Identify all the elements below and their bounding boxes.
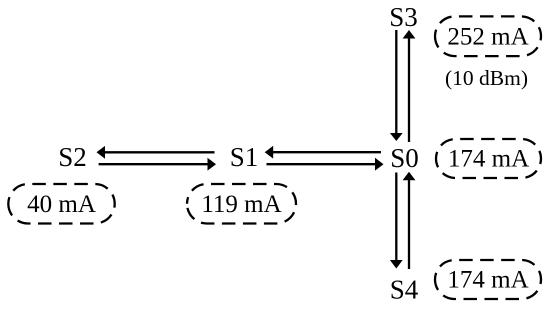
svg-text:S0: S0 xyxy=(390,143,419,173)
wire S3 to S0 (left, arrow pointing down at S0) xyxy=(390,30,403,141)
svg-text:252 mA: 252 mA xyxy=(447,23,528,50)
wire S4 to S0 (right, arrow pointing up at S0) xyxy=(403,172,416,269)
wire S0 to S1 (upper, arrow pointing left at S1) xyxy=(265,146,381,159)
svg-text:(10 dBm): (10 dBm) xyxy=(445,66,528,90)
dashed oval 174 mA (node S0 current) xyxy=(436,139,541,178)
svg-text:174 mA: 174 mA xyxy=(447,267,528,294)
dashed oval 252 mA (node S3 current) xyxy=(435,16,541,56)
dashed oval 40 mA (node S2 current) xyxy=(8,184,114,224)
wire S0 to S4 (left, arrow pointing down at S4) xyxy=(390,173,403,269)
svg-text:S2: S2 xyxy=(58,142,87,172)
dashed oval 174 mA (node S4 current) xyxy=(435,260,541,299)
svg-text:S4: S4 xyxy=(390,275,419,305)
svg-text:40 mA: 40 mA xyxy=(27,191,96,218)
svg-text:119 mA: 119 mA xyxy=(201,191,281,218)
wire S1 to S0 (lower, arrow pointing right at S0) xyxy=(267,158,384,171)
wire S2 to S1 (lower, arrow pointing right at S1) xyxy=(99,158,216,171)
wire S0 to S3 (right, arrow pointing up at S3) xyxy=(403,30,416,142)
dashed oval 119 mA (node S1 current) xyxy=(187,184,296,224)
svg-text:S1: S1 xyxy=(230,142,259,172)
svg-text:174 mA: 174 mA xyxy=(448,146,529,173)
svg-text:S3: S3 xyxy=(389,2,418,32)
wire S1 to S2 (upper, arrow pointing left at S2) xyxy=(97,146,215,159)
